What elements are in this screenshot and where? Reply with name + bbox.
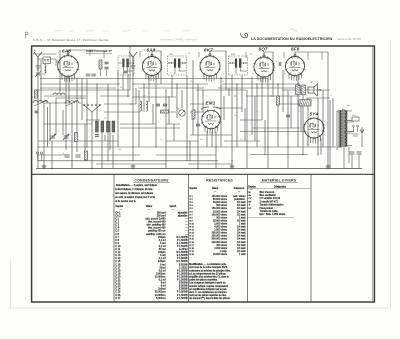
tube U7 5Y4 rectifier envelope [303, 117, 324, 143]
coil L5 [140, 101, 142, 111]
trimmer C12 [124, 71, 128, 73]
svg-text:en volts, la tension d'essai p: en volts, la tension d'essai pour P et W… [115, 196, 155, 199]
divider schematic/tables [32, 173, 374, 175]
svg-text:74: 74 [143, 50, 145, 52]
table RESISTANCES subheaders [190, 187, 246, 194]
wire transformer taps [337, 111, 354, 150]
svg-text:amplifiés d'un schéma-bloc (*): amplifiés d'un schéma-bloc (*), dans le [189, 277, 229, 279]
capacitor CV2 tuning [64, 136, 69, 138]
svg-text:codename au schéma de principe: codename au schéma de principe n'étre, [189, 269, 231, 272]
antenna [34, 52, 42, 70]
wire heater line lower [40, 87, 298, 89]
svg-text:cadre des pièces nouvelles.: cadre des pièces nouvelles. [189, 279, 218, 282]
svg-text:L2: L2 [59, 90, 61, 92]
resistor R14 [192, 110, 195, 119]
handwritten loop mark [241, 33, 248, 38]
capacitor C3 padder [86, 74, 91, 76]
materiel list footer line [248, 217, 295, 219]
wire horizontal connectors [44, 61, 330, 135]
table CONDENSATEURS subheaders [116, 205, 177, 211]
svg-text:5Y4: 5Y4 [306, 144, 309, 146]
tube U3 6K7 IF amp envelope [199, 55, 220, 81]
tube U2 6A8 oscillator envelope [142, 56, 162, 81]
svg-text:CONDENSATEURS: CONDENSATEURS [134, 179, 169, 183]
table CONDENSATEURS intro [115, 184, 157, 203]
svg-text:6Q7: 6Q7 [259, 47, 269, 52]
svg-text:25: 25 [222, 81, 224, 83]
transformer MF1 [168, 56, 187, 75]
wire partition [33, 46, 130, 90]
wire aux line y155 [38, 154, 216, 156]
svg-text:14: 14 [250, 54, 252, 56]
tube U5 6F6 output envelope [285, 56, 305, 81]
parts column left of osc block [99, 60, 102, 69]
wire aux line y104 [104, 104, 242, 108]
wire aux line y141 [38, 140, 260, 142]
svg-text:Spécif.: Spécif. [169, 206, 176, 208]
svg-text:Les récepteurs fabriqués à par: Les récepteurs fabriqués à partir du [189, 282, 226, 285]
svg-text:Osc: Osc [143, 95, 146, 97]
svg-text:EM1: EM1 [206, 101, 216, 106]
svg-text:RESISTANCES: RESISTANCES [206, 179, 233, 183]
transformer output [296, 85, 301, 95]
switch plug bottom left [36, 152, 38, 154]
svg-text:R5: R5 [104, 118, 106, 120]
capacitor C9 electrolytic [65, 155, 70, 157]
svg-text:2m: 2m [160, 139, 163, 141]
antenna coupling box [43, 57, 51, 64]
capacitor C15 coupling [279, 62, 281, 66]
svg-text:50m: 50m [200, 139, 204, 141]
svg-text:C19: C19 [298, 111, 301, 113]
antenna A2 [129, 52, 137, 68]
coil L4 osc block [118, 56, 134, 75]
svg-text:1m: 1m [234, 115, 237, 117]
svg-text:470: 470 [190, 81, 193, 83]
svg-text:+: + [63, 151, 65, 155]
transformer power Tr [342, 109, 344, 147]
capacitor C17 [196, 124, 200, 126]
svg-text:Repère: Repère [116, 205, 124, 208]
coil antenna primary [45, 65, 46, 73]
svg-text:de R. F. Les résistances se co: de R. F. Les résistances se compren- [189, 291, 227, 294]
svg-text:Substitution. — 3 papiers, sau: Substitution. — 3 papiers, sauf indiqué [116, 184, 157, 187]
capacitor C19 tone [286, 115, 290, 117]
svg-text:MATERIEL DIVERS: MATERIEL DIVERS [262, 179, 297, 183]
svg-text:1 watt: 1 watt [239, 253, 246, 256]
svg-text:Valeur: Valeur [146, 205, 153, 208]
scan smudges [55, 30, 190, 33]
svg-text:0,1: 0,1 [256, 111, 259, 113]
speaker HP [308, 87, 314, 93]
svg-text:aux valeurs, la tolérance est: aux valeurs, la tolérance est indiquée [115, 192, 154, 195]
svg-text:imprimerie CHAREL imprimeur: imprimerie CHAREL imprimeur [160, 38, 197, 42]
table RESISTANCES nota [189, 263, 231, 300]
wire screen line [36, 89, 330, 91]
tube U4 6Q7 detector envelope [253, 56, 274, 82]
wire grid caps [68, 50, 328, 60]
wire B+ bus [38, 146, 336, 148]
svg-text:6A8: 6A8 [147, 48, 156, 53]
wire ground bus [36, 168, 362, 170]
capacitor C7 [95, 135, 99, 137]
svg-text:Exc : Bob. 1.200 ohms: Exc : Bob. 1.200 ohms [260, 213, 287, 216]
svg-text:Genre w. RL.78.757: Genre w. RL.78.757 [337, 37, 361, 41]
wire aux line y120 [44, 123, 180, 125]
table MATERIEL DIVERS rows [249, 191, 287, 216]
svg-text:C 27: C 27 [115, 297, 121, 300]
svg-text:Tr: Tr [249, 205, 251, 207]
capacitor C13 [156, 104, 160, 106]
EM1 shadow arcs [201, 107, 221, 109]
fuse/switch secteur [352, 117, 359, 121]
svg-text:Désignation: Désignation [274, 185, 287, 188]
svg-text:P 1.500/B: P 1.500/B [177, 297, 188, 300]
capacitor C10 electrolytic [76, 155, 81, 157]
handwritten mark top-left [26, 32, 28, 39]
svg-text:25: 25 [90, 141, 92, 143]
svg-text:sin marqué (**), dans la liste: sin marqué (**), dans la liste des pièce… [189, 297, 230, 300]
svg-text:Pot.: Pot. [176, 107, 180, 110]
svg-text:E électrolytique, C chimique,: E électrolytique, C chimique, M mica ; [115, 188, 154, 191]
wire heater line upper [40, 83, 300, 85]
svg-text:C1: C1 [57, 131, 59, 133]
tube U1 6A8 converter envelope [57, 55, 79, 82]
svg-text:et de service pour E.: et de service pour E. [115, 200, 136, 203]
wire cathode bus [38, 155, 308, 161]
svg-text:R12: R12 [284, 73, 287, 75]
svg-text:Puissance: Puissance [234, 188, 245, 190]
svg-text:5.000cm: 5.000cm [156, 297, 165, 300]
ground terre [42, 164, 47, 168]
field coil Exc [299, 100, 311, 107]
svg-text:50: 50 [120, 87, 122, 89]
diode arrow [360, 127, 363, 134]
resistor bank R5-R8 [96, 121, 99, 132]
svg-text:LA DOCUMENTATION DU RADIOELECT: LA DOCUMENTATION DU RADIOELECTRICIEN [251, 37, 333, 41]
transformer MF2 [229, 56, 248, 75]
svg-text:10.000 ohms: 10.000 ohms [213, 253, 228, 256]
coil L3 oscillator [65, 101, 79, 103]
svg-text:8mf: 8mf [118, 149, 122, 151]
resistor R12 grid leak [277, 96, 280, 105]
wire junction dots [37, 146, 38, 147]
svg-text:sont ceux de la notice marquée: sont ceux de la notice marquée 5629, [189, 266, 228, 269]
svg-text:Exc.ch: Exc.ch [301, 103, 307, 105]
tube U6 EM1 tuning eye envelope [201, 110, 221, 135]
border frame [32, 46, 375, 302]
svg-text:numéro indiqué ci-après compor: numéro indiqué ci-après comportaient [189, 285, 228, 288]
svg-text:6K7: 6K7 [204, 48, 213, 53]
wire aux line y96 [44, 95, 300, 97]
svg-text:Valeur: Valeur [212, 187, 219, 190]
switch wave-change [83, 104, 85, 106]
svg-text:nent par les pièces repérées d: nent par les pièces repérées du des- [189, 294, 227, 297]
capacitor C21 filter [350, 152, 355, 154]
svg-text:L1: L1 [47, 98, 49, 100]
wire top stubs [90, 50, 322, 60]
svg-text:un amplificateur indiquée tout: un amplificateur indiquée tout le part. [189, 288, 227, 291]
resistor R1 [75, 133, 78, 142]
resistor R10 [161, 110, 169, 113]
capacitor CV1 tuning [50, 136, 55, 138]
wire aux line y164 [96, 163, 232, 165]
wire AVC line [40, 78, 268, 80]
svg-text:6A8: 6A8 [62, 49, 71, 54]
potentiometer volume [179, 110, 185, 116]
svg-text:470: 470 [270, 131, 273, 133]
coil L2 [53, 93, 65, 95]
svg-text:Alim: Alim [347, 104, 351, 107]
wire PSU bottom [344, 134, 362, 169]
svg-text:S. B. S. — 53, Boulevard Van: S. B. S. — 53, Boulevard Vanves, 17 • Di… [33, 38, 109, 42]
svg-text:cé, au comportement des 20 piè: cé, au comportement des 20 pièces [189, 272, 226, 275]
table MATERIEL DIVERS subheaders [248, 185, 286, 191]
svg-text:C2: C2 [71, 131, 73, 133]
table column dividers [114, 174, 311, 302]
svg-text:0,1: 0,1 [240, 139, 243, 141]
table CONDENSATEURS rows [115, 211, 188, 299]
svg-text:6F6: 6F6 [291, 47, 300, 52]
svg-text:Modification. — La résistance: Modification. — La résistance pola- [189, 263, 226, 266]
svg-text:Sect.: Sect. [352, 114, 357, 117]
svg-text:0,5: 0,5 [252, 73, 255, 75]
wire vertical runs [38, 50, 333, 169]
table RESISTANCES rows [190, 195, 246, 256]
value labels [47, 73, 351, 151]
trimmer CA1 [36, 73, 41, 75]
svg-text:Repère: Repère [248, 185, 256, 188]
svg-text:5Y4: 5Y4 [310, 112, 319, 117]
capacitor C0 left edge [35, 111, 39, 113]
resistor R9 [85, 151, 88, 160]
svg-text:25: 25 [188, 53, 190, 55]
resistor R0 left edge [35, 90, 38, 98]
coil L1 antenna [33, 101, 48, 104]
svg-text:Repère: Repère [190, 187, 198, 190]
